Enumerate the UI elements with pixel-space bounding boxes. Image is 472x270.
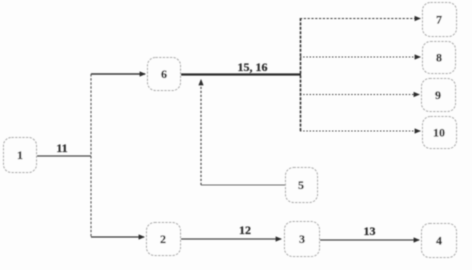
svg-text:6: 6: [161, 67, 167, 81]
svg-text:1: 1: [17, 148, 23, 162]
svg-text:9: 9: [435, 88, 441, 102]
svg-text:12: 12: [239, 223, 251, 237]
svg-text:13: 13: [364, 224, 376, 238]
svg-text:11: 11: [56, 141, 67, 155]
svg-text:5: 5: [298, 178, 304, 192]
svg-text:15, 16: 15, 16: [238, 60, 268, 74]
svg-text:4: 4: [436, 234, 442, 248]
svg-text:7: 7: [436, 13, 442, 27]
svg-text:10: 10: [433, 126, 445, 140]
svg-text:2: 2: [160, 232, 166, 246]
svg-text:8: 8: [436, 51, 442, 65]
svg-text:3: 3: [299, 232, 305, 246]
